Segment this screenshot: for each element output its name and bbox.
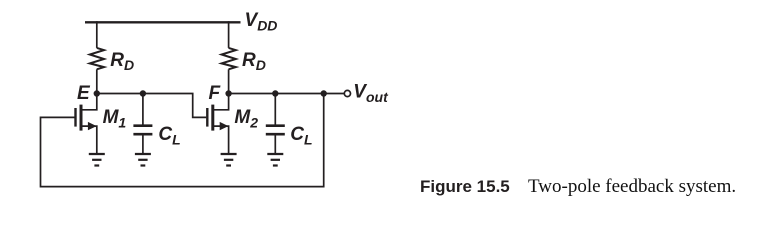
- svg-text:Vout: Vout: [353, 81, 389, 104]
- resistor R_D (right): [222, 48, 236, 69]
- VDD supply rail: [85, 21, 241, 23]
- transistor M2 channel bar: [211, 105, 214, 131]
- node E junction dot: [94, 90, 100, 96]
- svg-text:M2: M2: [234, 107, 258, 130]
- resistor R_D (left): [90, 48, 104, 69]
- svg-text:Figure 15.5: Figure 15.5: [420, 177, 510, 196]
- svg-text:Two-pole feedback system.: Two-pole feedback system.: [528, 176, 736, 197]
- transistor M2 label: [234, 107, 258, 130]
- transistor M1 gate plate: [74, 108, 76, 127]
- wire R_D left to node E: [96, 69, 98, 93]
- transistor M1 channel bar: [80, 105, 83, 131]
- node E label: [77, 83, 91, 104]
- node VDD label: [245, 10, 278, 33]
- wire M2 source to ground: [213, 126, 229, 153]
- wire node F to Vout terminal: [229, 93, 345, 95]
- wire M1 drain to node E: [81, 94, 97, 110]
- transistor M1 source arrow: [88, 122, 97, 130]
- resistor R_D (left) value label: [110, 50, 134, 73]
- capacitor C_L (left): [133, 126, 152, 135]
- ground below M2: [221, 154, 237, 166]
- capacitor C_L (left) value label: [158, 124, 180, 147]
- svg-text:RD: RD: [110, 50, 134, 73]
- svg-text:VDD: VDD: [245, 10, 278, 33]
- svg-text:CL: CL: [290, 124, 312, 147]
- node F junction dot: [225, 90, 231, 96]
- resistor R_D (right) value label: [242, 50, 266, 73]
- svg-text:CL: CL: [158, 124, 180, 147]
- ground below M1: [89, 154, 105, 166]
- caption: Figure 15.5 Two-pole feedback system.: [420, 176, 736, 197]
- wire feedback loop from Vout node to M1 gate: [41, 94, 324, 187]
- wire M2 drain to node F: [213, 94, 229, 110]
- transistor M2 source arrow: [220, 122, 229, 130]
- node Vout label: [353, 81, 389, 104]
- transistor M2 gate plate: [206, 108, 208, 127]
- wire R_D right to node F: [228, 69, 230, 93]
- svg-text:RD: RD: [242, 50, 266, 73]
- ground below C_L left: [135, 154, 151, 166]
- wire node E down to C_L left: [142, 94, 144, 126]
- wire M1 source to ground: [81, 126, 97, 153]
- wire node E to gate of M2: [97, 94, 207, 118]
- capacitor C_L (right): [266, 126, 285, 135]
- wire node F down to C_L right: [274, 94, 276, 126]
- node F label: [209, 83, 222, 104]
- terminal Vout open circle: [344, 90, 350, 96]
- svg-text:E: E: [77, 83, 91, 104]
- transistor M1 label: [103, 107, 127, 130]
- wire junction dot at C_L left tap: [140, 90, 146, 96]
- wire VDD rail to R_D left: [96, 21, 98, 48]
- wire C_L left to ground: [142, 134, 144, 153]
- svg-text:M1: M1: [103, 107, 127, 130]
- capacitor C_L (right) value label: [290, 124, 312, 147]
- svg-text:F: F: [209, 83, 222, 104]
- wire junction dot at C_L right tap: [272, 90, 278, 96]
- wire junction dot at feedback tap: [321, 90, 327, 96]
- ground below C_L right: [267, 154, 283, 166]
- wire C_L right to ground: [274, 134, 276, 153]
- wire VDD rail to R_D right: [228, 21, 230, 48]
